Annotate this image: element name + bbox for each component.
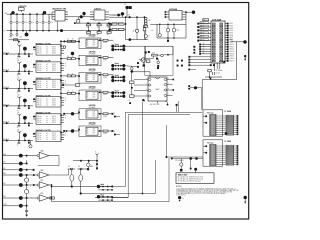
wire antenna bus	[3, 140, 33, 142]
svg-text:1n: 1n	[17, 58, 19, 60]
zener D20	[26, 175, 28, 178]
wire	[129, 102, 131, 104]
svg-text:GND FB COMP: GND FB COMP	[150, 104, 160, 106]
svg-text:220u: 220u	[176, 29, 179, 31]
svg-text:IN1 1n: IN1 1n	[37, 66, 41, 68]
svg-text:PIO10: PIO10	[230, 44, 234, 46]
junction	[111, 186, 113, 188]
wire input	[3, 197, 37, 199]
wire antenna bus	[3, 70, 33, 72]
svg-text:FB1: FB1	[9, 37, 12, 39]
svg-text:PIO14: PIO14	[230, 53, 234, 55]
svg-text:PIO11: PIO11	[230, 46, 234, 48]
P1 left pins lower	[201, 43, 211, 45]
svg-text:OUT: OUT	[92, 133, 95, 135]
svg-text:10u: 10u	[39, 22, 42, 24]
svg-text:x3: x3	[46, 122, 48, 124]
resistor pair	[61, 40, 67, 42]
svg-text:x2: x2	[65, 66, 67, 68]
capacitor	[18, 54, 20, 56]
svg-text:S2: S2	[203, 48, 205, 50]
svg-text:J1: J1	[124, 4, 126, 6]
pins right	[216, 145, 237, 147]
antenna symbol	[18, 80, 20, 83]
svg-text:5. REV B 2014: 5. REV B 2014	[176, 195, 186, 197]
wire loop	[150, 23, 186, 25]
wire bus LB	[81, 193, 156, 195]
wire mid bus	[76, 22, 124, 24]
pin squares right	[177, 60, 179, 62]
resistor R25 vertical	[76, 83, 79, 86]
svg-text:10u: 10u	[25, 22, 28, 24]
svg-text:NOTES:: NOTES:	[176, 186, 182, 188]
antenna symbol	[18, 45, 20, 48]
wire	[57, 21, 59, 31]
svg-text:OUT1: OUT1	[52, 101, 56, 103]
input wire	[65, 113, 79, 115]
junction	[111, 197, 113, 199]
capacitor C8	[10, 31, 12, 34]
svg-text:RX: RX	[113, 131, 115, 133]
svg-text:OUT3: OUT3	[52, 139, 56, 141]
wire hook pin5	[165, 101, 168, 104]
antenna symbol	[18, 62, 20, 65]
resistor R40	[50, 197, 55, 199]
resistor pair	[61, 92, 67, 94]
resistor R15	[98, 30, 100, 33]
diode D12	[77, 168, 87, 170]
svg-text:IN0 1n: IN0 1n	[37, 116, 41, 118]
P1 left pins labelled	[200, 23, 212, 25]
wire row X2	[3, 169, 33, 171]
junction blob	[23, 64, 27, 68]
header J3	[188, 85, 190, 87]
output resistor	[98, 113, 103, 115]
svg-text:49R9: 49R9	[103, 116, 107, 118]
output resistor	[98, 91, 103, 93]
svg-text:V+: V+	[95, 152, 97, 154]
svg-text:IN3 1n: IN3 1n	[37, 139, 41, 141]
svg-text:NET4: NET4	[201, 36, 205, 38]
svg-text:x0: x0	[46, 64, 48, 66]
svg-text:OUT: OUT	[92, 62, 95, 64]
svg-text:EN: EN	[3, 162, 5, 164]
svg-text:x0: x0	[46, 99, 48, 101]
svg-text:OUT0: OUT0	[52, 116, 56, 118]
junction blob bus2	[60, 29, 63, 32]
wire	[119, 14, 123, 16]
transistor Q1	[141, 58, 145, 62]
svg-text:IC 2004: IC 2004	[225, 140, 232, 143]
ground	[25, 215, 28, 217]
wire U4 out	[185, 11, 187, 13]
IC U20 MAX1771	[148, 77, 167, 101]
svg-text:OUT3: OUT3	[52, 105, 56, 107]
svg-text:4k7: 4k7	[97, 34, 100, 36]
svg-text:IN1 1n: IN1 1n	[37, 83, 41, 85]
svg-text:x2: x2	[46, 51, 48, 53]
wire bottom	[126, 39, 148, 41]
power flag right	[244, 196, 247, 199]
wire	[73, 160, 97, 162]
svg-text:x1: x1	[65, 115, 67, 117]
capacitor C31	[71, 169, 73, 175]
svg-text:OUT: OUT	[92, 97, 95, 99]
svg-text:x3: x3	[46, 139, 48, 141]
resistor pair	[61, 75, 67, 77]
svg-text:200R: 200R	[152, 53, 155, 55]
connector P1 body	[211, 21, 225, 63]
wire 5V rail	[109, 16, 146, 18]
capacitor C9	[16, 31, 18, 34]
svg-text:PIO13: PIO13	[230, 51, 234, 53]
ground	[156, 101, 158, 103]
svg-text:LMV358: LMV358	[89, 105, 96, 107]
module U30 Teensy	[203, 140, 223, 166]
svg-text:10u: 10u	[45, 22, 48, 24]
svg-text:IN2 1n: IN2 1n	[37, 51, 41, 53]
svg-text:49R9: 49R9	[103, 42, 107, 44]
svg-text:1n: 1n	[17, 110, 19, 112]
wire from H1 bus down	[145, 46, 147, 52]
svg-text:MAX4614 OCTR: MAX4614 OCTR	[36, 42, 51, 45]
svg-text:x1: x1	[46, 135, 48, 137]
wire bus LD	[52, 201, 170, 203]
resistor pair	[61, 58, 67, 60]
diode D11	[68, 168, 76, 170]
svg-text:NET3: NET3	[201, 33, 205, 35]
svg-text:1n: 1n	[17, 75, 19, 77]
pin stub	[223, 61, 225, 63]
svg-text:NET1: NET1	[201, 26, 205, 28]
svg-text:S0: S0	[203, 43, 205, 45]
wire H2 bus	[124, 66, 138, 67]
wire H1 bus	[124, 45, 173, 47]
svg-text:x2: x2	[46, 85, 48, 87]
inductor L3	[161, 54, 164, 57]
svg-text:OUT0: OUT0	[52, 47, 56, 49]
svg-text:49R9: 49R9	[103, 133, 107, 135]
resistor R31	[130, 95, 134, 98]
svg-text:OUT: OUT	[92, 129, 95, 131]
junction blob	[71, 52, 74, 55]
junction	[189, 157, 192, 160]
inductor L2	[145, 17, 148, 20]
svg-text:IN0 1n: IN0 1n	[37, 64, 41, 66]
svg-text:5V0: 5V0	[113, 15, 116, 17]
wire to +BATT	[231, 41, 244, 43]
svg-text:10u: 10u	[51, 22, 54, 24]
svg-text:PIO1: PIO1	[230, 23, 233, 25]
svg-text:LMV358: LMV358	[89, 69, 96, 71]
svg-text:x1: x1	[46, 66, 48, 68]
capacitor	[18, 106, 20, 108]
svg-text:OUT2: OUT2	[52, 103, 56, 105]
component box left	[146, 60, 150, 63]
svg-text:MAX: MAX	[155, 88, 160, 91]
svg-text:IN2 1n: IN2 1n	[37, 85, 41, 87]
pins left	[205, 115, 207, 117]
svg-text:x1: x1	[65, 63, 67, 65]
svg-text:OUT: OUT	[92, 77, 95, 79]
svg-text:OUT: OUT	[92, 131, 95, 133]
wire net A	[125, 111, 202, 113]
junction blob	[23, 81, 27, 85]
svg-text:OUT: OUT	[92, 75, 95, 77]
sheet loop rect	[145, 46, 173, 75]
wire	[205, 76, 222, 78]
svg-text:OUT1: OUT1	[52, 135, 56, 137]
power pin right	[244, 55, 246, 57]
svg-text:MAX4614 OCTR: MAX4614 OCTR	[36, 60, 51, 63]
svg-text:x3: x3	[46, 70, 48, 72]
wire power bus 2	[6, 30, 123, 32]
pin stub	[28, 89, 30, 90]
pin squares column	[193, 46, 195, 48]
svg-text:x2: x2	[65, 100, 67, 102]
resistor R30	[131, 72, 133, 81]
wire row X1	[3, 163, 27, 165]
junction node VF	[43, 11, 46, 14]
junction blob L1	[25, 33, 29, 37]
junction	[33, 174, 35, 176]
svg-text:OUT: OUT	[92, 43, 95, 45]
svg-text:x2: x2	[65, 117, 67, 119]
svg-text:OUT2: OUT2	[52, 85, 56, 87]
capacitor C16	[145, 31, 147, 35]
svg-text:x1: x1	[65, 98, 67, 100]
svg-text:PIO7: PIO7	[230, 37, 233, 39]
wire	[145, 38, 147, 40]
junction blob	[194, 86, 197, 89]
capacitor C21	[131, 67, 134, 70]
svg-text:OUT1: OUT1	[52, 49, 56, 51]
svg-text:IN3 1n: IN3 1n	[37, 70, 41, 72]
junction blob	[23, 47, 27, 51]
border frame	[3, 3, 249, 220]
svg-text:D3: D3	[68, 166, 70, 168]
svg-text:OUT: OUT	[92, 115, 95, 117]
wire U5B out	[49, 174, 69, 176]
resistor R23 vertical	[143, 28, 146, 31]
svg-text:OUT: OUT	[92, 41, 95, 43]
svg-text:1n: 1n	[17, 127, 19, 129]
capacitor C2	[16, 13, 18, 15]
svg-text:OUT: OUT	[92, 95, 95, 97]
svg-text:PIO2: PIO2	[230, 25, 233, 27]
junction blob VOUT	[192, 11, 195, 14]
resistor R21 row	[109, 29, 111, 31]
capacitor	[18, 141, 20, 143]
capacitor C1	[10, 13, 12, 15]
svg-text:P1: P1	[203, 19, 205, 21]
svg-text:x2: x2	[46, 120, 48, 122]
svg-text:OUT: OUT	[92, 111, 95, 113]
svg-text:x1: x1	[46, 49, 48, 51]
capacitor	[18, 89, 20, 91]
svg-text:PIO17: PIO17	[230, 60, 234, 62]
svg-text:4k7: 4k7	[107, 34, 110, 36]
svg-text:PIO15: PIO15	[230, 56, 234, 58]
title block	[176, 173, 214, 184]
svg-text:PIO12: PIO12	[230, 49, 234, 51]
svg-text:1u: 1u	[148, 36, 150, 38]
svg-text:MAX4614 OCTR: MAX4614 OCTR	[36, 94, 51, 97]
svg-text:IN3 1n: IN3 1n	[37, 53, 41, 55]
capacitor C20	[157, 61, 160, 64]
junction blob	[23, 133, 27, 137]
capacitor	[18, 123, 20, 125]
svg-text:PIO6: PIO6	[230, 35, 233, 37]
svg-text:68u: 68u	[148, 20, 151, 22]
wire bus LC	[95, 197, 128, 199]
junction blob +BATT	[243, 40, 246, 43]
svg-text:IN3 1n: IN3 1n	[37, 122, 41, 124]
wire right bus down	[236, 42, 238, 80]
wire antenna bus	[3, 122, 33, 124]
net square W1	[166, 156, 168, 158]
pin square	[156, 58, 158, 60]
svg-text:x2: x2	[65, 135, 67, 137]
svg-text:VB: VB	[3, 168, 5, 170]
svg-text:IN2 1n: IN2 1n	[37, 68, 41, 70]
wire antenna bus	[3, 88, 33, 90]
svg-text:OUT2: OUT2	[52, 137, 56, 139]
svg-text:x1: x1	[46, 83, 48, 85]
svg-text:PIO5: PIO5	[230, 32, 233, 34]
svg-text:x0: x0	[46, 116, 48, 118]
svg-text:IN2 1n: IN2 1n	[37, 120, 41, 122]
svg-text:IN1 1n: IN1 1n	[37, 49, 41, 51]
svg-text:OUT3: OUT3	[52, 70, 56, 72]
junction blob	[23, 116, 27, 120]
wire top	[149, 72, 151, 77]
svg-text:PIO3: PIO3	[230, 28, 233, 30]
svg-text:OUT0: OUT0	[52, 99, 56, 101]
antenna symbol	[18, 97, 20, 100]
svg-text:1u: 1u	[13, 34, 15, 36]
capacitor C32	[80, 169, 82, 175]
wire U5A out	[49, 155, 59, 157]
junction	[144, 51, 146, 53]
svg-text:x2: x2	[46, 137, 48, 139]
wire net B	[128, 114, 190, 116]
svg-text:IN2 1n: IN2 1n	[37, 137, 41, 139]
transistor symbol T1	[30, 141, 32, 145]
svg-text:S4: S4	[203, 53, 205, 55]
svg-text:OUT: OUT	[92, 45, 95, 47]
svg-text:10u: 10u	[32, 22, 35, 24]
capacitor C30	[26, 206, 28, 210]
svg-text:x2: x2	[65, 83, 67, 85]
power symbol	[194, 168, 197, 171]
svg-text:OUT: OUT	[92, 79, 95, 81]
ground	[209, 78, 212, 80]
junction	[117, 14, 120, 17]
svg-text:49R9: 49R9	[103, 60, 107, 62]
svg-text:49R9: 49R9	[103, 94, 107, 96]
wire bottom row	[3, 205, 27, 207]
capacitor C17	[212, 72, 214, 75]
pin stub	[28, 71, 30, 72]
capacitor	[18, 71, 20, 73]
svg-text:OUT0: OUT0	[52, 64, 56, 66]
svg-text:x1: x1	[65, 80, 67, 82]
capacitor C14	[173, 24, 175, 26]
wire bus LA	[52, 186, 113, 188]
wire vert center	[141, 102, 143, 194]
P1 left pins long rows	[190, 56, 211, 58]
svg-text:x0: x0	[46, 81, 48, 83]
svg-text:+: +	[74, 178, 75, 180]
svg-text:LMV358: LMV358	[89, 86, 96, 88]
svg-text:OUT1: OUT1	[52, 66, 56, 68]
svg-text:PIO4: PIO4	[230, 30, 233, 32]
svg-text:IN0 1n: IN0 1n	[37, 47, 41, 49]
resistor R12	[107, 24, 111, 26]
fuse F1	[135, 29, 138, 32]
component R column	[77, 17, 79, 20]
ferrite bead FB1	[9, 39, 29, 41]
wire right vert	[177, 101, 179, 112]
ground	[18, 40, 20, 41]
junction	[82, 12, 85, 15]
vertical bus B1	[60, 41, 62, 140]
junction	[80, 15, 83, 18]
module U30 Teensy	[203, 110, 223, 136]
wire U2 out	[68, 16, 94, 18]
wire antenna bus	[3, 105, 33, 107]
svg-text:600: 600	[20, 37, 23, 39]
current source symbol	[87, 163, 91, 167]
wire into block3	[176, 104, 178, 106]
junction	[66, 130, 68, 132]
svg-text:LMV358: LMV358	[89, 52, 96, 54]
svg-text:S1: S1	[203, 46, 205, 48]
svg-text:5V: 5V	[182, 198, 184, 200]
ground stub C13	[167, 38, 169, 40]
capacitor C5	[36, 13, 38, 15]
svg-text:+: +	[164, 27, 165, 29]
svg-text:10u: 10u	[13, 22, 16, 24]
svg-text:x2: x2	[46, 103, 48, 105]
junction	[121, 12, 124, 15]
svg-text:NET5: NET5	[201, 39, 205, 41]
svg-text:VIN: VIN	[128, 14, 130, 16]
wire antenna bus	[3, 53, 33, 55]
capacitor C13	[167, 24, 169, 26]
capacitor C6	[42, 13, 44, 15]
svg-text:IN1 1n: IN1 1n	[37, 101, 41, 103]
svg-text:32.768kHz: 32.768kHz	[216, 70, 223, 72]
svg-text:TX: TX	[113, 113, 115, 115]
pin stub	[28, 123, 30, 124]
svg-text:IN1 1n: IN1 1n	[37, 135, 41, 137]
output resistor	[98, 57, 103, 59]
svg-text:OUT3: OUT3	[52, 53, 56, 55]
svg-text:OUT2: OUT2	[52, 51, 56, 53]
svg-text:x3: x3	[46, 105, 48, 107]
svg-text:OUT1: OUT1	[52, 118, 56, 120]
svg-text:IN0 1n: IN0 1n	[37, 133, 41, 135]
pins right	[216, 115, 237, 117]
svg-text:IN0 1n: IN0 1n	[37, 99, 41, 101]
svg-text:IN3 1n: IN3 1n	[37, 105, 41, 107]
svg-text:D4: D4	[78, 166, 80, 168]
header J2	[188, 69, 190, 71]
svg-text:G: G	[63, 135, 64, 137]
junction	[64, 40, 66, 42]
